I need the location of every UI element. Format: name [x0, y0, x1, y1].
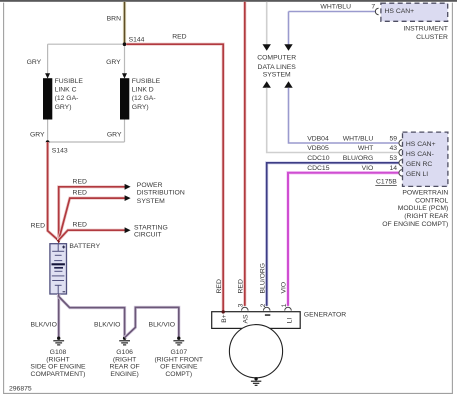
svg-text:CLUSTER: CLUSTER — [416, 34, 448, 41]
arrow into link D — [122, 73, 127, 78]
wire WHT from top to computer data lines arrow — [266, 2, 268, 45]
svg-text:BRN: BRN — [107, 15, 121, 22]
node B+ terminal — [222, 310, 225, 313]
svg-text:VDB05: VDB05 — [307, 145, 329, 152]
arrow down into computer data lines (left) — [263, 44, 271, 50]
label POWERTRAIN CONTROL MODULE (PCM) (RIGHT REAR OF ENGINE COMPT) — [382, 190, 448, 228]
svg-text:POWER: POWER — [137, 182, 163, 189]
arrow down into computer data lines (right) — [284, 44, 292, 50]
svg-text:3: 3 — [237, 303, 244, 307]
PCM box — [403, 132, 448, 186]
svg-text:OF ENGINE: OF ENGINE — [160, 364, 198, 371]
svg-text:CONTROL: CONTROL — [415, 198, 448, 205]
svg-text:WHT: WHT — [358, 145, 373, 152]
wire GRY left vertical into fusible link C — [47, 44, 49, 73]
svg-text:BLU/ORG: BLU/ORG — [259, 263, 266, 294]
svg-text:BLK/VIO: BLK/VIO — [149, 321, 175, 328]
svg-text:RED: RED — [31, 222, 45, 229]
wire WHT/BLU instrument cluster to computer data lines — [289, 11, 377, 13]
svg-text:DISTRIBUTION: DISTRIBUTION — [137, 190, 185, 197]
fusible link C body — [43, 78, 52, 119]
svg-text:COMPARTMENT): COMPARTMENT) — [31, 371, 86, 378]
svg-text:COMPUTER: COMPUTER — [257, 54, 296, 61]
label G106 (RIGHT REAR OF ENGINE) — [109, 349, 139, 378]
connector label C175B — [375, 179, 397, 186]
svg-text:S144: S144 — [129, 37, 145, 44]
arrow up from WHT/BLU wire (right) — [284, 81, 292, 88]
svg-text:WHT/BLU: WHT/BLU — [320, 4, 351, 11]
wire GRY below link D — [124, 120, 126, 143]
svg-text:43: 43 — [389, 145, 397, 152]
label G107 (RIGHT FRONT OF ENGINE COMPT) — [155, 349, 204, 378]
svg-text:GRY: GRY — [27, 59, 42, 66]
svg-text:RED: RED — [237, 279, 244, 293]
label STARTING CIRCUIT — [134, 224, 168, 238]
svg-text:(12 GA-: (12 GA- — [55, 95, 79, 102]
svg-text:RED: RED — [73, 189, 87, 196]
wire GRY right vertical into fusible link D — [124, 46, 126, 74]
svg-text:GEN RC: GEN RC — [406, 161, 433, 168]
node battery negative — [57, 295, 61, 299]
svg-text:CDC10: CDC10 — [307, 155, 330, 162]
svg-text:GRY): GRY) — [55, 104, 72, 111]
svg-text:59: 59 — [389, 135, 397, 142]
svg-text:SYSTEM: SYSTEM — [137, 198, 165, 205]
svg-text:AS: AS — [243, 314, 250, 324]
svg-text:COMPT): COMPT) — [165, 371, 192, 378]
connector arc generator pin 1 — [285, 307, 292, 310]
svg-text:B+: B+ — [221, 314, 228, 323]
svg-text:LINK D: LINK D — [132, 87, 154, 94]
svg-text:SYSTEM: SYSTEM — [263, 72, 291, 79]
row 4 labels CDC15 VIO 14 — [307, 165, 397, 172]
wire BLU/ORG PCM to generator pin 2 — [267, 163, 400, 306]
arrow into battery positive — [56, 239, 61, 244]
row 3 labels CDC10 BLU/ORG 53 — [307, 155, 397, 162]
svg-text:HS CAN-: HS CAN- — [406, 151, 434, 158]
svg-text:CDC15: CDC15 — [307, 165, 330, 172]
svg-text:RED: RED — [216, 279, 223, 293]
svg-text:VIO: VIO — [362, 165, 374, 172]
svg-text:VDB04: VDB04 — [307, 135, 329, 142]
svg-text:53: 53 — [389, 155, 397, 162]
svg-text:HS CAN+: HS CAN+ — [385, 8, 415, 15]
svg-text:ENGINE): ENGINE) — [110, 371, 138, 378]
svg-text:296875: 296875 — [9, 385, 32, 392]
wire BLK/VIO battery to G106 — [59, 297, 125, 337]
svg-text:1: 1 — [281, 303, 288, 307]
label COMPUTER DATA LINES SYSTEM — [257, 54, 296, 78]
wire RED from S143 down to battery positive — [48, 142, 59, 241]
svg-text:(12 GA-: (12 GA- — [132, 95, 156, 102]
generator body circle — [229, 325, 282, 378]
fusible link D label — [132, 78, 161, 111]
svg-text:GEN LI: GEN LI — [406, 171, 428, 178]
ground G106 — [119, 337, 130, 345]
battery symbol — [50, 244, 67, 294]
svg-text:RED: RED — [73, 178, 87, 185]
svg-text:C175B: C175B — [376, 179, 397, 186]
svg-text:BLK/VIO: BLK/VIO — [30, 321, 56, 328]
wire WHT/BLU to PCM HS CAN+ — [289, 88, 400, 143]
instrument cluster box — [381, 3, 448, 21]
svg-text:WHT/BLU: WHT/BLU — [343, 135, 374, 142]
svg-text:INSTRUMENT: INSTRUMENT — [403, 25, 448, 32]
svg-text:14: 14 — [389, 165, 397, 172]
svg-text:DATA LINES: DATA LINES — [258, 64, 297, 71]
top dark bar — [0, 0, 457, 2]
wire BLK/VIO G106 to G107 — [125, 307, 179, 337]
svg-text:G108: G108 — [50, 349, 67, 356]
node S143 — [46, 140, 50, 144]
wire WHT to PCM HS CAN- — [267, 88, 400, 153]
svg-text:(RIGHT: (RIGHT — [113, 356, 136, 363]
arrow to power distribution 2 — [125, 195, 131, 201]
wire RED S144 to generator B+ — [126, 44, 223, 311]
svg-text:GRY: GRY — [107, 131, 122, 138]
svg-text:GRY): GRY) — [132, 104, 149, 111]
ground at generator body — [251, 377, 261, 385]
svg-text:G106: G106 — [116, 349, 133, 356]
svg-text:HS CAN+: HS CAN+ — [406, 141, 436, 148]
svg-text:BATTERY: BATTERY — [69, 243, 100, 250]
wire BLK/VIO battery to G108 — [57, 294, 60, 337]
svg-text:REAR OF: REAR OF — [109, 364, 139, 371]
connector arc generator pin 3 — [242, 307, 249, 310]
wire RED from top to generator pin 3 — [243, 2, 246, 306]
svg-text:MODULE (PCM): MODULE (PCM) — [398, 205, 449, 212]
row 2 labels VDB05 WHT 43 — [307, 145, 397, 152]
label G108 (RIGHT SIDE OF ENGINE COMPARTMENT) — [30, 349, 86, 378]
connector arc PCM pin 14 — [399, 170, 402, 177]
svg-text:CIRCUIT: CIRCUIT — [134, 231, 162, 238]
connector arc PCM pin 43 — [399, 149, 402, 156]
label INSTRUMENT CLUSTER — [403, 25, 448, 41]
fusible link D body — [120, 78, 129, 119]
wire RED battery to power distribution arrow 2 — [59, 198, 126, 240]
svg-text:FUSIBLE: FUSIBLE — [132, 78, 161, 85]
svg-text:7: 7 — [371, 3, 375, 10]
svg-text:RED: RED — [73, 222, 87, 229]
arrow to power distribution 1 — [125, 184, 131, 190]
svg-text:(RIGHT: (RIGHT — [46, 356, 69, 363]
connector arc pin 7 — [375, 8, 378, 15]
svg-text:LINK C: LINK C — [55, 87, 77, 94]
svg-text:SIDE OF ENGINE: SIDE OF ENGINE — [30, 364, 86, 371]
ground G107 — [173, 337, 184, 345]
connector arc PCM pin 53 — [399, 160, 402, 167]
arrow into link C — [45, 73, 50, 78]
svg-text:(RIGHT FRONT: (RIGHT FRONT — [155, 356, 204, 363]
pin label I (rotated, appears as bar) — [265, 314, 270, 316]
wire RED battery to power distribution arrow 1 — [59, 187, 126, 240]
arrow to starting circuit — [125, 227, 131, 233]
generator connector box — [212, 312, 301, 329]
svg-text:BLK/VIO: BLK/VIO — [94, 321, 120, 328]
wire BRN vertical to S144 — [123, 2, 126, 44]
svg-text:BLU/ORG: BLU/ORG — [343, 155, 374, 162]
svg-text:VIO: VIO — [281, 282, 288, 294]
arrow up from WHT wire (left) — [263, 81, 271, 88]
svg-text:GRY: GRY — [30, 131, 45, 138]
svg-text:OF ENGINE COMPT): OF ENGINE COMPT) — [382, 221, 448, 228]
svg-text:GRY: GRY — [106, 59, 121, 66]
wire GRY horizontal S144 to left branch — [48, 43, 125, 45]
connector arc PCM pin 59 — [399, 140, 402, 147]
svg-text:S143: S143 — [52, 148, 68, 155]
svg-text:(RIGHT REAR: (RIGHT REAR — [404, 213, 448, 220]
svg-text:LI: LI — [286, 318, 293, 324]
node S144 — [123, 42, 127, 46]
svg-text:GENERATOR: GENERATOR — [304, 311, 347, 318]
svg-text:2: 2 — [260, 303, 267, 307]
svg-text:FUSIBLE: FUSIBLE — [55, 78, 84, 85]
row 1 labels VDB04 WHT/BLU 59 — [307, 135, 397, 142]
wire RED battery to starting circuit arrow — [59, 230, 126, 240]
svg-text:G107: G107 — [170, 349, 187, 356]
fusible link C label — [55, 78, 84, 111]
wire GRY horizontal joining at S143 — [48, 141, 125, 143]
svg-text:RED: RED — [172, 33, 186, 40]
ground G108 — [53, 337, 64, 345]
svg-text:POWERTRAIN: POWERTRAIN — [402, 190, 448, 197]
label POWER DISTRIBUTION SYSTEM — [137, 182, 185, 205]
connector arc generator pin 2 — [263, 307, 270, 310]
wire GRY below link C — [47, 120, 49, 143]
wire VIO PCM to generator pin 1 — [288, 173, 399, 306]
